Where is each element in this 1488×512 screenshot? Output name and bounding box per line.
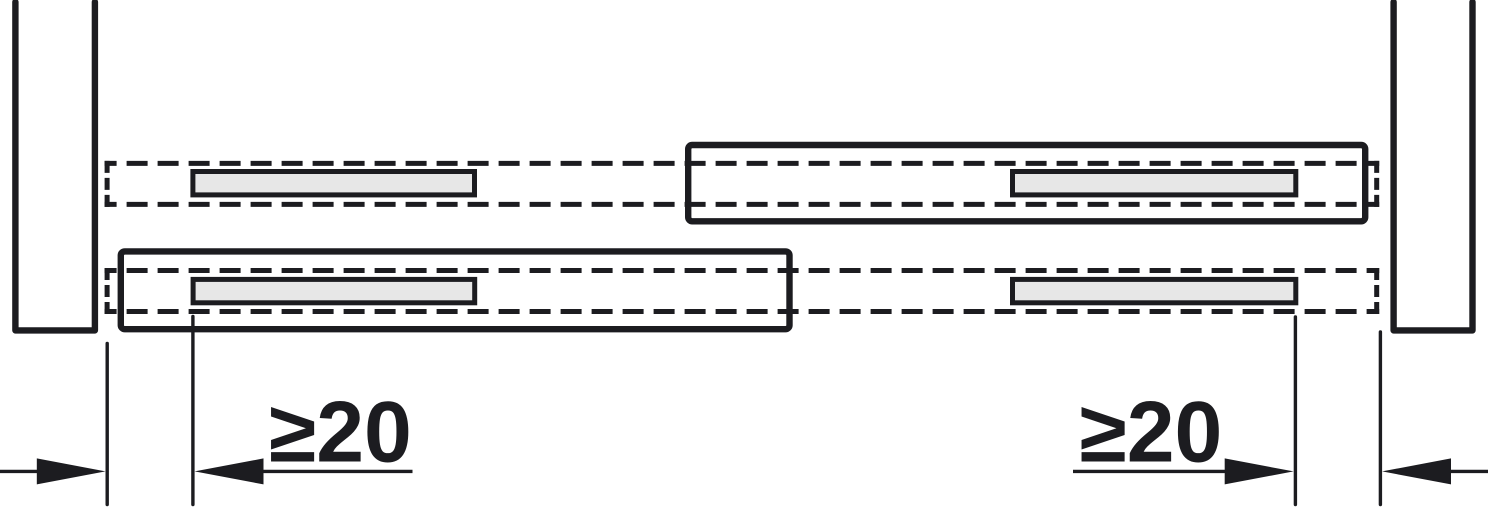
left ≥20 arrowhead (pointing left) [195, 458, 264, 484]
left ≥20 dimension line [263, 470, 413, 473]
upper sliding door panel (solid rect) [688, 145, 1365, 221]
upper-left guide rail (grey bar) [193, 172, 475, 195]
extension line below lower-right rail end [1294, 317, 1297, 505]
upper running track (dashed rect) right edge [1374, 161, 1379, 207]
left cabinet side panel (U-channel) [15, 2, 95, 330]
upper running track (dashed rect) top edge [105, 161, 1380, 166]
right dimension leader line [1450, 470, 1488, 473]
svg-text:≥20: ≥20 [269, 385, 412, 481]
right ≥20 dimension line [1073, 470, 1225, 473]
extension line below lower-left rail end [191, 317, 194, 505]
left dimension arrowhead (pointing right) [37, 458, 106, 484]
lower running track (dashed rect) top edge [105, 268, 1380, 273]
lower-right guide rail (grey bar) [1013, 279, 1296, 302]
lower running track (dashed rect) right edge [1374, 268, 1379, 314]
lower sliding door panel (solid rect) [121, 251, 790, 329]
lower running track (dashed rect) left edge [105, 268, 110, 314]
right ≥20 arrowhead (pointing right) [1225, 458, 1294, 484]
lower running track (dashed rect) bottom edge [105, 309, 1380, 314]
extension line below left panel edge [105, 344, 108, 505]
right cabinet side panel (U-channel) [1394, 2, 1473, 330]
svg-text:≥20: ≥20 [1080, 385, 1223, 481]
left dimension leader line [0, 470, 40, 473]
right dimension arrowhead (pointing left) [1382, 458, 1451, 484]
lower-left guide rail (grey bar) [193, 279, 475, 302]
upper running track (dashed rect) left edge [105, 161, 110, 207]
extension line below right track end [1379, 332, 1382, 505]
upper running track (dashed rect) bottom edge [105, 202, 1380, 207]
upper-right guide rail (grey bar) [1013, 172, 1296, 195]
